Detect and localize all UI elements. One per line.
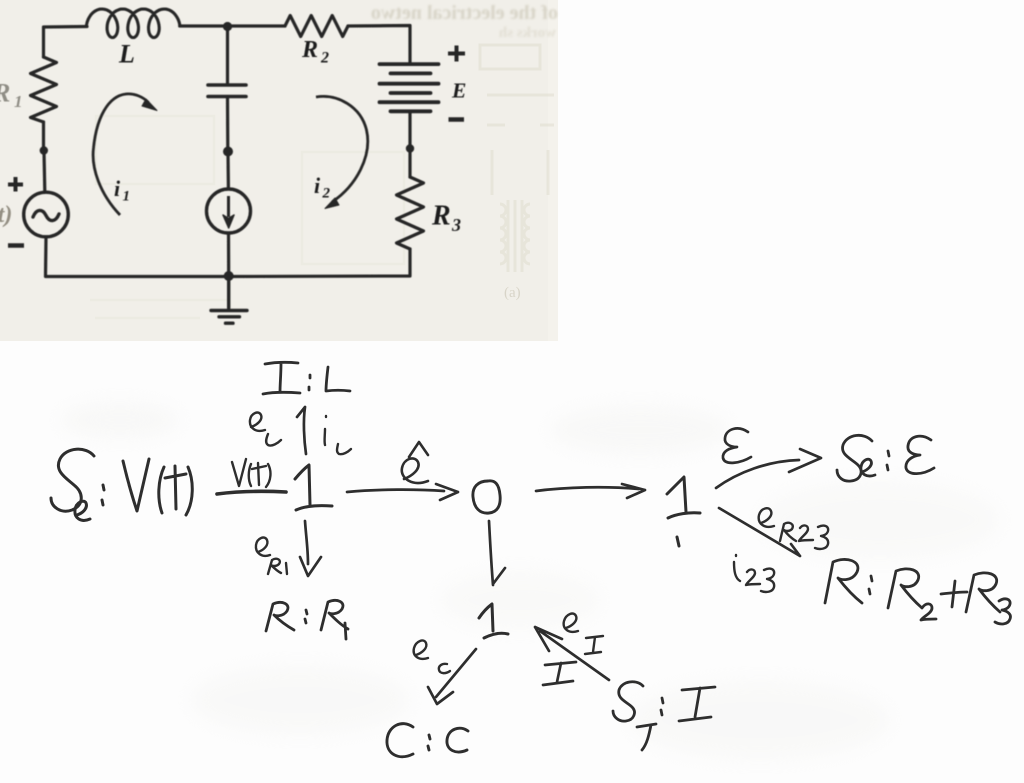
- label ec: [414, 641, 450, 674]
- label E: [451, 79, 466, 103]
- svg-text:i: i: [314, 173, 321, 198]
- label iL: [325, 416, 351, 454]
- wire: top-left corner to inductor: [44, 27, 88, 58]
- faint bleed-through figure boxes in meshes: [90, 116, 404, 318]
- label L: [118, 40, 135, 69]
- inductor L: [87, 9, 180, 38]
- svg-text:of the electrical netwo: of the electrical netwo: [371, 2, 558, 24]
- battery E: [380, 64, 439, 111]
- bond 1 to R:R2+R3, effort eR23 flow i23: [719, 508, 800, 556]
- wire: R2 to top-right corner, down to battery: [348, 26, 410, 63]
- wire: battery to node above R3: [408, 111, 411, 146]
- bond Sf:I to 1, effort eI: [535, 627, 609, 680]
- mesh current arrow i1: [93, 94, 157, 215]
- battery minus sign: [449, 117, 465, 122]
- label R3: [431, 201, 461, 236]
- label i1: [114, 176, 130, 205]
- bond 1 to R:R1, effort eR1: [300, 521, 321, 576]
- battery plus sign: [448, 46, 465, 62]
- label I flow: [543, 662, 576, 685]
- label i2: [314, 173, 331, 202]
- voltage source minus sign: [8, 243, 24, 248]
- svg-text:3: 3: [451, 215, 461, 235]
- label i23: [734, 555, 774, 592]
- current source: [207, 189, 251, 233]
- wire: inductor to capacitor top node: [180, 24, 228, 27]
- label E effort: [723, 428, 751, 462]
- element C:C: [387, 724, 468, 757]
- node: bottom/ground junction: [224, 271, 234, 281]
- svg-text:2: 2: [320, 50, 329, 67]
- svg-text:1: 1: [14, 92, 23, 111]
- resistor R2: [285, 16, 348, 37]
- source Sf:I label: [613, 682, 715, 750]
- node: R1/source junction: [40, 146, 48, 154]
- faint (a) caption bleed: [504, 285, 521, 301]
- source Se:E label: [837, 435, 934, 481]
- svg-text:i: i: [114, 176, 121, 201]
- faint bleed-through transformer figure: [480, 45, 554, 272]
- svg-text:(a): (a): [504, 285, 521, 301]
- resistor R1: [31, 57, 57, 122]
- node: capacitor/current-source junction: [223, 147, 233, 157]
- 0-junction: [473, 481, 500, 513]
- capacitor: [208, 85, 246, 97]
- label eR1: [256, 538, 287, 574]
- svg-text:v(t): v(t): [0, 202, 12, 228]
- bond 1 to I:L, flow iL: [297, 407, 306, 454]
- svg-text:works sh: works sh: [498, 25, 556, 41]
- svg-text:R: R: [431, 201, 451, 232]
- wire: R1 to node: [42, 122, 45, 148]
- ground: [211, 276, 247, 323]
- resistor R3: [397, 177, 424, 249]
- wire: R3 down to bottom-right corner and bottom rail: [229, 249, 410, 277]
- label e-hat: [402, 442, 428, 483]
- bond 1 to Se:E: [716, 449, 821, 488]
- bond 1 to C:C, effort ec: [428, 649, 476, 704]
- svg-text:2: 2: [322, 186, 331, 202]
- label eR23: [759, 508, 828, 549]
- mesh current arrow i2: [316, 96, 368, 208]
- svg-text:1: 1: [123, 189, 131, 205]
- label eI: [564, 614, 603, 654]
- svg-text:L: L: [118, 40, 135, 69]
- label R1 (faded): [0, 79, 23, 112]
- wire: voltage source to bottom-left corner: [46, 237, 230, 277]
- element R:R1: [266, 600, 348, 639]
- wire: node to current source: [226, 153, 230, 189]
- svg-text:E: E: [451, 79, 466, 103]
- label V(t) on bond: [232, 459, 270, 487]
- element I:L: [263, 362, 350, 394]
- label v(t) (clipped at edge, faded): [0, 202, 12, 228]
- faint bleed-through page text (mirrored): [371, 2, 558, 41]
- element R:R2+R3: [825, 559, 1010, 624]
- page mottling: [60, 402, 1000, 760]
- 1-junction (left): [295, 465, 332, 510]
- scanned textbook photo background: [0, 0, 558, 341]
- wire: top node down to capacitor: [226, 26, 229, 83]
- wire: node to voltage source: [42, 152, 46, 191]
- wire: node to R2: [228, 24, 286, 27]
- label R2: [301, 37, 329, 67]
- 1-junction (bottom): [479, 604, 508, 638]
- bond 0 to 1 (right): [536, 484, 645, 498]
- voltage source v(t): [24, 192, 69, 237]
- wire: node to R3: [408, 150, 411, 177]
- label eL: [250, 413, 281, 446]
- voltage source plus sign: [8, 177, 23, 192]
- wire: capacitor to mid node: [226, 97, 230, 149]
- bond 1 to 0, effort e-hat: [347, 484, 458, 500]
- svg-text:R: R: [0, 79, 10, 108]
- bond 0 down to 1: [489, 521, 505, 585]
- 1-junction (right): [667, 477, 700, 546]
- node: battery/R3 junction: [406, 144, 414, 152]
- source Se:V(t) label: [51, 449, 192, 520]
- bond Se to 1, effort V(t): [217, 491, 286, 494]
- node: top-centre junction: [223, 22, 232, 31]
- wire: current source to bottom node: [227, 233, 230, 277]
- svg-text:R: R: [301, 37, 318, 63]
